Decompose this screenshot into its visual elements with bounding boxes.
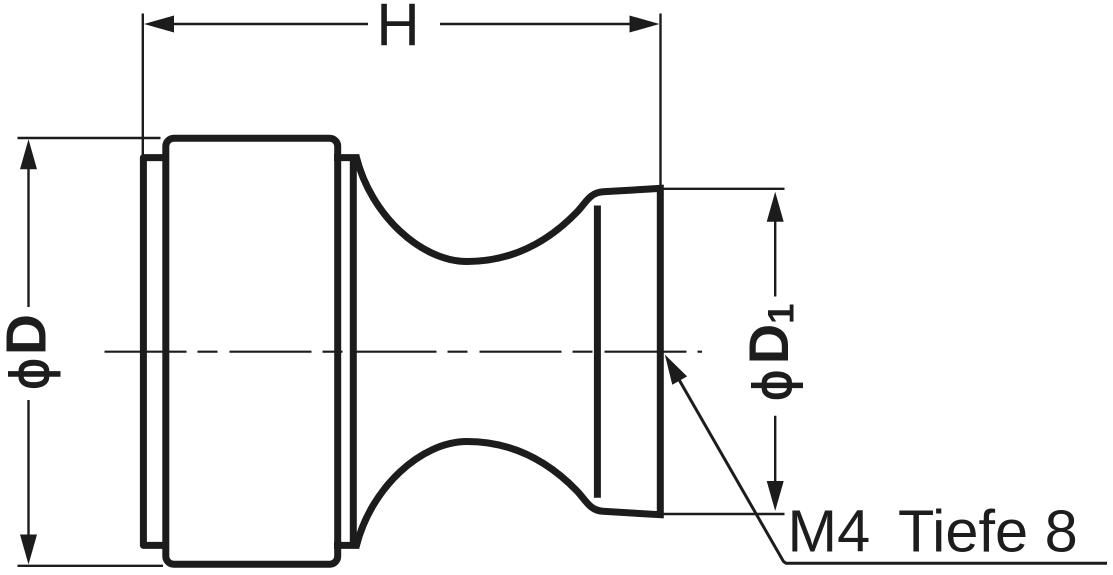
svg-text:ϕ: ϕ <box>0 358 62 390</box>
svg-text:1: 1 <box>761 303 802 324</box>
svg-text:D: D <box>737 324 800 364</box>
svg-text:M4: M4 <box>788 498 871 565</box>
svg-text:H: H <box>376 0 419 59</box>
svg-text:Tiefe 8: Tiefe 8 <box>898 498 1078 565</box>
svg-text:D: D <box>0 314 58 355</box>
svg-text:ϕ: ϕ <box>741 370 804 401</box>
